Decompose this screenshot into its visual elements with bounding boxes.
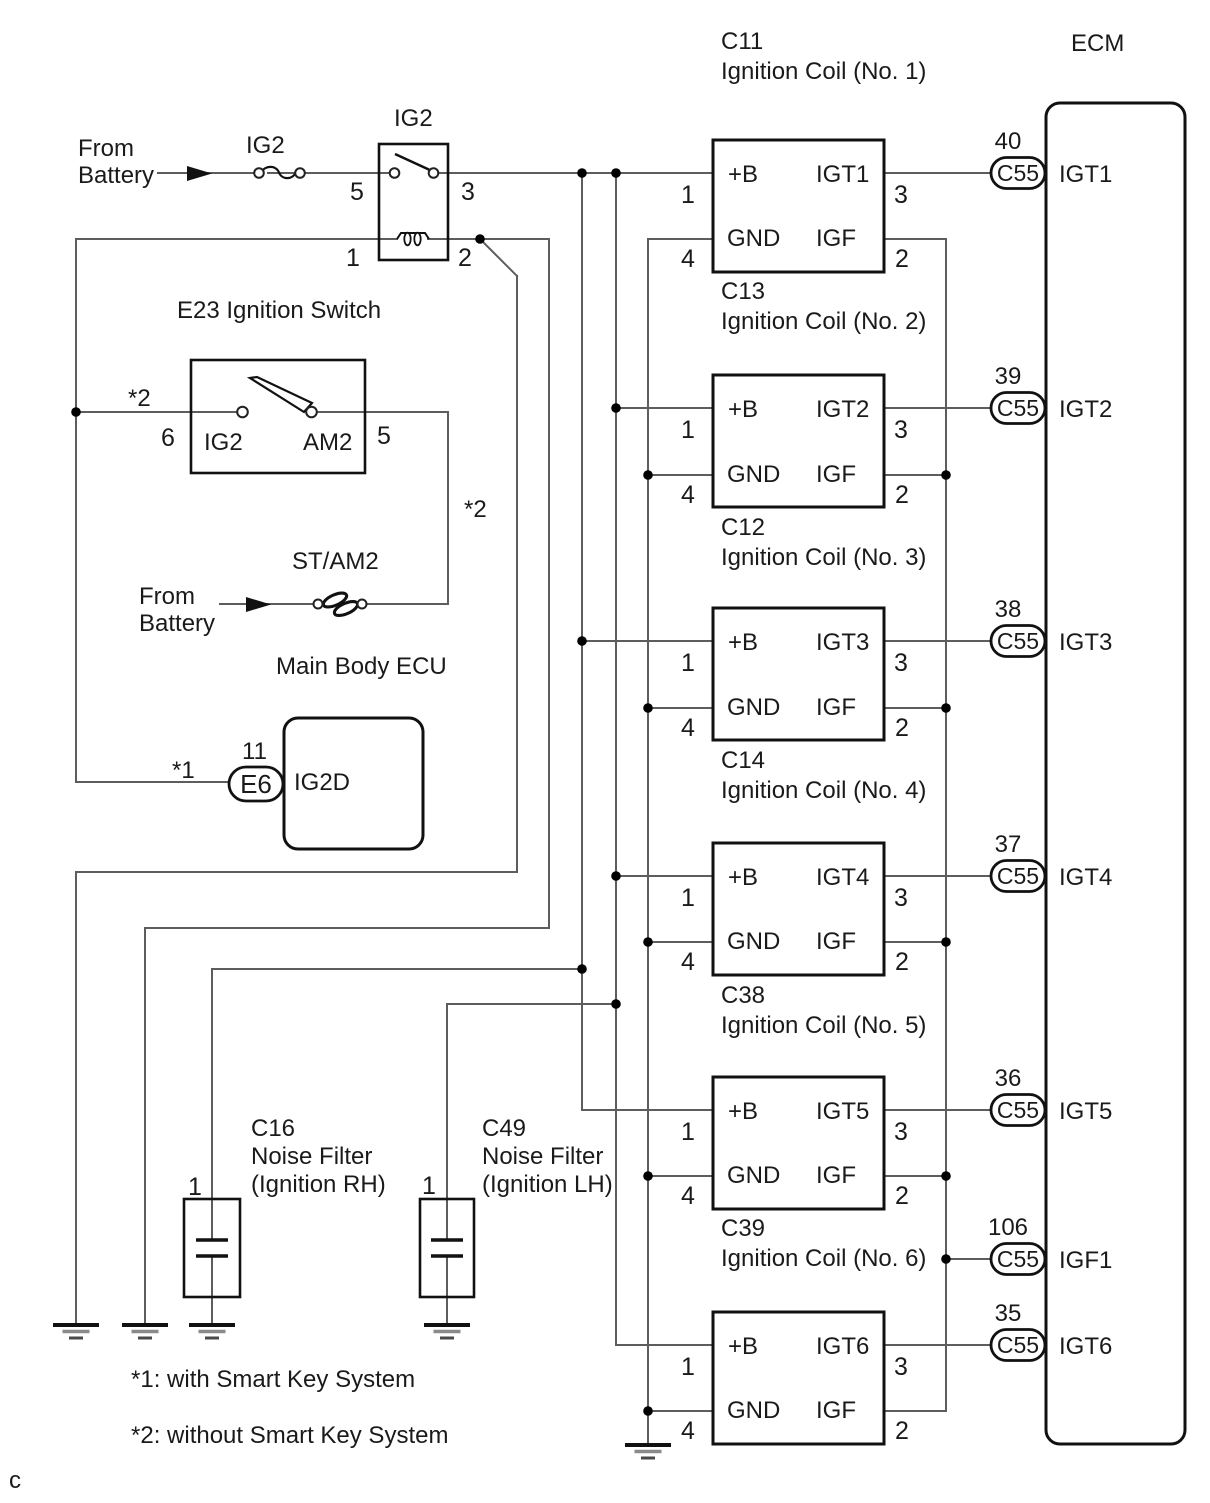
svg-text:IGT5: IGT5 <box>1059 1098 1112 1125</box>
svg-text:IGT2: IGT2 <box>1059 396 1112 423</box>
svg-text:C14: C14 <box>721 747 765 774</box>
svg-text:GND: GND <box>727 1162 780 1189</box>
svg-text:IGT4: IGT4 <box>816 864 869 891</box>
svg-text:106: 106 <box>988 1214 1028 1241</box>
svg-text:2: 2 <box>895 714 909 742</box>
svg-text:IGF: IGF <box>816 225 856 252</box>
svg-text:Ignition Coil (No. 4): Ignition Coil (No. 4) <box>721 777 926 804</box>
svg-text:IG2: IG2 <box>246 132 285 159</box>
svg-text:Ignition Coil (No. 6): Ignition Coil (No. 6) <box>721 1245 926 1272</box>
svg-text:*1: with Smart Key System: *1: with Smart Key System <box>131 1366 415 1393</box>
svg-text:IGT3: IGT3 <box>816 629 869 656</box>
svg-text:C11: C11 <box>721 28 763 55</box>
svg-text:Ignition Coil (No. 2): Ignition Coil (No. 2) <box>721 308 926 335</box>
svg-text:GND: GND <box>727 1397 780 1424</box>
svg-text:IGF: IGF <box>816 694 856 721</box>
svg-text:3: 3 <box>894 1118 908 1146</box>
svg-text:*2: *2 <box>464 496 487 523</box>
svg-text:3: 3 <box>894 181 908 209</box>
svg-text:C55: C55 <box>997 1097 1039 1123</box>
svg-text:IGT1: IGT1 <box>816 161 869 188</box>
svg-text:C55: C55 <box>997 1246 1039 1272</box>
svg-text:3: 3 <box>461 178 475 206</box>
svg-text:1: 1 <box>188 1173 202 1201</box>
svg-text:39: 39 <box>995 363 1022 390</box>
svg-text:5: 5 <box>377 422 391 450</box>
svg-text:IGT3: IGT3 <box>1059 629 1112 656</box>
svg-text:*2: *2 <box>128 385 151 412</box>
svg-text:Noise Filter: Noise Filter <box>251 1143 372 1170</box>
svg-text:C16: C16 <box>251 1115 295 1142</box>
svg-text:C55: C55 <box>997 395 1039 421</box>
svg-text:36: 36 <box>995 1065 1022 1092</box>
svg-text:IG2D: IG2D <box>294 769 350 796</box>
svg-text:+B: +B <box>728 629 758 656</box>
svg-text:C38: C38 <box>721 982 765 1009</box>
svg-text:GND: GND <box>727 225 780 252</box>
svg-text:Ignition Coil (No. 5): Ignition Coil (No. 5) <box>721 1012 926 1039</box>
svg-text:4: 4 <box>681 948 695 976</box>
svg-text:IGT6: IGT6 <box>816 1333 869 1360</box>
svg-text:IG2: IG2 <box>394 105 433 132</box>
svg-text:Battery: Battery <box>78 162 154 189</box>
svg-text:C12: C12 <box>721 514 765 541</box>
svg-text:2: 2 <box>458 244 472 272</box>
svg-text:E6: E6 <box>240 769 272 799</box>
svg-text:+B: +B <box>728 1098 758 1125</box>
svg-text:IGT1: IGT1 <box>1059 161 1112 188</box>
svg-text:C55: C55 <box>997 1332 1039 1358</box>
svg-text:1: 1 <box>681 649 695 677</box>
svg-text:1: 1 <box>681 1118 695 1146</box>
svg-text:C55: C55 <box>997 160 1039 186</box>
svg-text:3: 3 <box>894 649 908 677</box>
svg-text:ECM: ECM <box>1071 30 1124 57</box>
svg-text:IGF: IGF <box>816 1162 856 1189</box>
svg-text:IGT2: IGT2 <box>816 396 869 423</box>
svg-text:E23 Ignition Switch: E23 Ignition Switch <box>177 297 381 324</box>
svg-text:ST/AM2: ST/AM2 <box>292 548 379 575</box>
svg-text:IGF: IGF <box>816 461 856 488</box>
svg-text:+B: +B <box>728 864 758 891</box>
svg-text:AM2: AM2 <box>303 429 352 456</box>
svg-text:IG2: IG2 <box>204 429 243 456</box>
svg-text:Ignition Coil (No. 3): Ignition Coil (No. 3) <box>721 544 926 571</box>
svg-text:C13: C13 <box>721 278 765 305</box>
svg-text:C55: C55 <box>997 863 1039 889</box>
svg-text:4: 4 <box>681 1417 695 1445</box>
svg-text:37: 37 <box>995 831 1022 858</box>
svg-text:GND: GND <box>727 694 780 721</box>
svg-text:1: 1 <box>681 1353 695 1381</box>
svg-text:35: 35 <box>995 1300 1022 1327</box>
svg-text:6: 6 <box>161 424 175 452</box>
svg-text:+B: +B <box>728 396 758 423</box>
svg-text:C49: C49 <box>482 1115 526 1142</box>
svg-text:c: c <box>9 1467 21 1494</box>
svg-text:GND: GND <box>727 461 780 488</box>
svg-text:3: 3 <box>894 1353 908 1381</box>
svg-text:IGF: IGF <box>816 928 856 955</box>
svg-text:1: 1 <box>681 181 695 209</box>
svg-text:1: 1 <box>681 884 695 912</box>
svg-text:4: 4 <box>681 481 695 509</box>
svg-text:1: 1 <box>681 416 695 444</box>
svg-text:IGT4: IGT4 <box>1059 864 1112 891</box>
svg-text:Battery: Battery <box>139 610 215 637</box>
svg-text:2: 2 <box>895 245 909 273</box>
svg-text:2: 2 <box>895 948 909 976</box>
svg-text:*2: without Smart Key System: *2: without Smart Key System <box>131 1422 448 1449</box>
svg-text:From: From <box>78 135 134 162</box>
svg-text:Ignition Coil (No. 1): Ignition Coil (No. 1) <box>721 58 926 85</box>
svg-text:+B: +B <box>728 1333 758 1360</box>
svg-text:2: 2 <box>895 481 909 509</box>
svg-text:(Ignition LH): (Ignition LH) <box>482 1171 613 1198</box>
svg-text:*1: *1 <box>172 757 195 784</box>
svg-text:IGT5: IGT5 <box>816 1098 869 1125</box>
svg-text:40: 40 <box>995 128 1022 155</box>
svg-text:2: 2 <box>895 1182 909 1210</box>
svg-text:3: 3 <box>894 416 908 444</box>
svg-text:Noise Filter: Noise Filter <box>482 1143 603 1170</box>
svg-text:4: 4 <box>681 245 695 273</box>
svg-text:From: From <box>139 583 195 610</box>
svg-text:4: 4 <box>681 1182 695 1210</box>
svg-text:GND: GND <box>727 928 780 955</box>
svg-text:IGF1: IGF1 <box>1059 1247 1112 1274</box>
svg-text:38: 38 <box>995 596 1022 623</box>
svg-text:(Ignition RH): (Ignition RH) <box>251 1171 386 1198</box>
svg-text:1: 1 <box>346 244 360 272</box>
svg-text:IGT6: IGT6 <box>1059 1333 1112 1360</box>
svg-text:1: 1 <box>422 1172 436 1200</box>
svg-text:C55: C55 <box>997 628 1039 654</box>
svg-text:5: 5 <box>350 178 364 206</box>
svg-text:Main Body ECU: Main Body ECU <box>276 653 447 680</box>
svg-text:+B: +B <box>728 161 758 188</box>
svg-text:IGF: IGF <box>816 1397 856 1424</box>
svg-text:3: 3 <box>894 884 908 912</box>
svg-text:C39: C39 <box>721 1215 765 1242</box>
svg-text:2: 2 <box>895 1417 909 1445</box>
svg-text:4: 4 <box>681 714 695 742</box>
svg-text:11: 11 <box>242 738 267 765</box>
